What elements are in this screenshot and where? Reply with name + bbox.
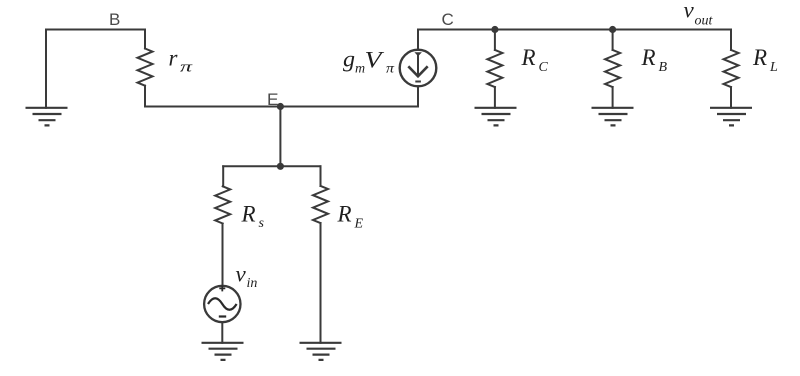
svg-text:B: B xyxy=(659,60,668,75)
svg-text:V: V xyxy=(365,47,386,72)
wire current source top lead xyxy=(417,30,419,50)
wire R_C top lead xyxy=(494,30,496,50)
wire R_s to v_in source xyxy=(222,224,224,286)
svg-text:E: E xyxy=(354,216,364,231)
ground (below R_L) xyxy=(710,108,752,126)
svg-text:in: in xyxy=(247,276,258,291)
wire B rail top-left xyxy=(46,29,145,31)
current source g_m V_pi circle xyxy=(400,50,437,87)
wire current source bottom lead xyxy=(417,86,419,106)
wire R_L bottom lead xyxy=(730,87,732,108)
svg-text:R: R xyxy=(241,202,256,227)
source v_in circle xyxy=(204,286,240,322)
svg-text:R: R xyxy=(752,45,767,70)
junction dot C/R_B xyxy=(609,26,616,33)
svg-text:R: R xyxy=(337,201,352,226)
resistor R_C xyxy=(487,50,502,87)
svg-text:π: π xyxy=(180,60,193,76)
current source arrow xyxy=(408,52,427,81)
v_in source sine and polarity xyxy=(208,285,237,316)
wire lower rail xyxy=(223,165,320,167)
svg-text:R: R xyxy=(641,45,656,70)
wire R_B top lead xyxy=(612,30,614,50)
resistor R_s xyxy=(215,186,230,223)
wire r_pi top lead xyxy=(144,30,146,49)
svg-text:v: v xyxy=(684,0,695,23)
wire R_C bottom lead xyxy=(494,87,496,108)
ground (left, below B) xyxy=(26,108,68,126)
svg-text:R: R xyxy=(521,45,536,70)
wire E drop xyxy=(279,107,281,167)
wire r_pi bottom lead xyxy=(144,86,146,107)
ground (below R_B) xyxy=(592,108,634,126)
wire R_E to ground xyxy=(320,223,322,343)
junction dot C/R_C xyxy=(491,26,498,33)
svg-text:C: C xyxy=(442,10,454,29)
node E junction dot xyxy=(277,103,284,110)
resistor r_pi xyxy=(138,49,153,86)
wire C rail xyxy=(418,29,731,31)
svg-text:E: E xyxy=(267,90,279,109)
resistor R_E xyxy=(313,186,328,223)
junction dot lower rail xyxy=(277,163,284,170)
wire R_E top lead xyxy=(320,166,322,186)
svg-text:C: C xyxy=(539,60,549,75)
resistor R_B xyxy=(605,50,620,87)
wire R_L top lead xyxy=(730,30,732,50)
ground (below R_E) xyxy=(300,343,342,360)
resistor R_L xyxy=(724,50,739,87)
svg-text:s: s xyxy=(259,216,265,231)
ground (below v_in) xyxy=(202,343,244,360)
svg-text:g: g xyxy=(343,47,355,72)
wire R_s top lead xyxy=(222,166,224,186)
svg-text:B: B xyxy=(109,10,120,29)
svg-text:v: v xyxy=(236,262,247,287)
wire R_B bottom lead xyxy=(612,87,614,108)
svg-text:r: r xyxy=(169,46,179,71)
wire v_in to ground xyxy=(221,322,223,343)
ground (below R_C) xyxy=(475,108,517,126)
svg-text:L: L xyxy=(769,60,778,75)
svg-text:π: π xyxy=(386,62,395,77)
wire left drop to ground xyxy=(45,30,47,108)
svg-text:out: out xyxy=(695,14,714,29)
wire E rail xyxy=(145,106,418,108)
